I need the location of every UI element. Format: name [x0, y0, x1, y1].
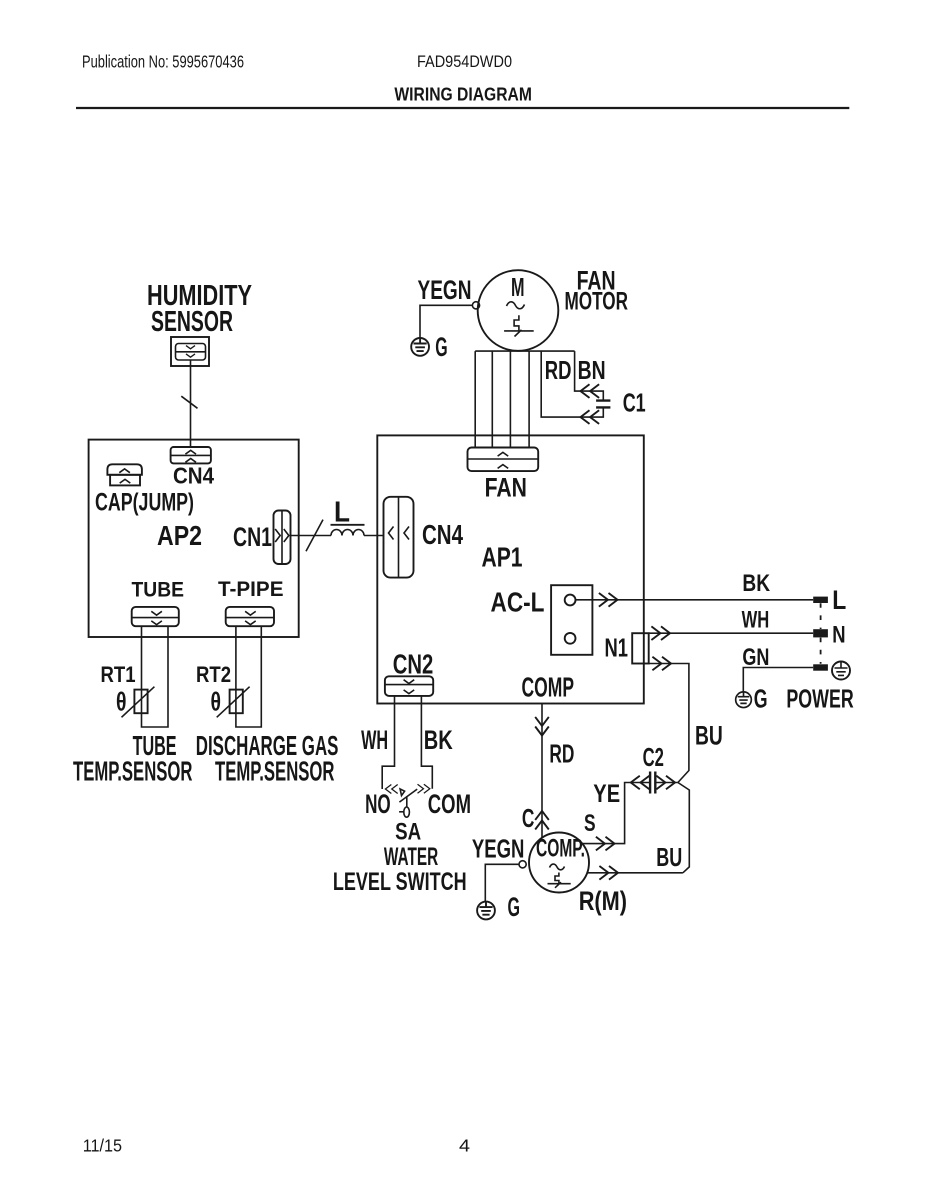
svg-text:S: S: [584, 810, 596, 837]
svg-text:BK: BK: [742, 570, 770, 597]
svg-text:LEVEL SWITCH: LEVEL SWITCH: [333, 868, 467, 896]
connector arrow up (C): [535, 811, 549, 830]
wire motor bus bar: [475, 350, 574, 352]
svg-text:RT1: RT1: [101, 662, 136, 687]
svg-text:BN: BN: [578, 355, 606, 385]
svg-text:WIRING DIAGRAM: WIRING DIAGRAM: [394, 85, 532, 105]
fan motor M1: [478, 270, 559, 351]
connector arrow down (RD): [535, 717, 549, 736]
wire humidity sensor to CN4: [190, 360, 192, 447]
svg-text:AP2: AP2: [157, 520, 202, 551]
cap jumper symbol: [107, 464, 141, 485]
svg-text:CN4: CN4: [422, 519, 463, 550]
svg-text:COMP: COMP: [522, 672, 575, 703]
wire break slash: [306, 520, 323, 552]
svg-text:AP1: AP1: [482, 542, 523, 573]
connector arrow S: [596, 837, 615, 851]
wire motor lead 1: [474, 351, 476, 447]
svg-text:C: C: [522, 803, 535, 833]
svg-text:R(M): R(M): [579, 886, 627, 916]
svg-text:RD: RD: [549, 739, 574, 769]
svg-text:COM: COM: [428, 789, 471, 819]
wire GN to terminal and ground: [743, 668, 813, 692]
connector FAN on AP1: [468, 448, 539, 472]
humidity sensor BM1: [171, 337, 209, 366]
connector CN1 on AP2: [274, 511, 291, 565]
wire C2 right to BU junction: [655, 782, 678, 784]
board AP1 box: [377, 435, 644, 703]
wire motor lead 4: [528, 351, 530, 447]
wire WH from N1 to terminal N: [649, 632, 814, 634]
compressor terminal node: [519, 861, 526, 868]
connector arrow into C2 left: [631, 776, 650, 790]
ground symbol (motor): [411, 338, 429, 356]
svg-text:YE: YE: [593, 780, 620, 808]
svg-text:COMP.: COMP.: [536, 835, 585, 863]
ground symbol (compressor): [477, 902, 495, 920]
capacitor C2: [650, 772, 655, 794]
svg-text:SENSOR: SENSOR: [151, 306, 233, 338]
svg-text:11/15: 11/15: [83, 1135, 122, 1155]
relay N1 box: [632, 633, 649, 663]
connector CN2 on AP1: [385, 676, 433, 696]
board AP2 box: [89, 440, 299, 637]
svg-text:T-PIPE: T-PIPE: [218, 578, 284, 601]
svg-text:C1: C1: [623, 388, 646, 418]
terminal N: [813, 629, 828, 637]
ground symbol (power G): [736, 692, 752, 708]
svg-text:CN4: CN4: [173, 463, 214, 489]
svg-text:N: N: [832, 622, 845, 649]
svg-text:MOTOR: MOTOR: [565, 288, 629, 316]
connector arrow BU: [652, 657, 671, 671]
svg-text:4: 4: [459, 1135, 470, 1155]
terminal GN: [813, 664, 828, 670]
wire R(M) to BU: [587, 872, 683, 874]
wire BN to C1: [575, 351, 604, 401]
wire CN1 to CN4 with choke: [291, 535, 332, 537]
wire YEGN to ground: [420, 305, 472, 338]
wire YEGN (compressor) to ground: [485, 864, 519, 901]
svg-text:θ: θ: [211, 687, 222, 717]
svg-text:RT2: RT2: [196, 662, 231, 687]
svg-text:M: M: [511, 272, 525, 302]
dashed link between power terminals: [820, 603, 822, 664]
wire break slash: [181, 396, 197, 408]
connector arrow WH: [651, 626, 670, 640]
svg-text:FAN: FAN: [485, 472, 527, 502]
svg-text:L: L: [832, 585, 846, 615]
connector arrow BK: [599, 593, 618, 607]
svg-text:G: G: [435, 332, 447, 362]
svg-text:L: L: [334, 497, 350, 529]
svg-text:TEMP.SENSOR: TEMP.SENSOR: [215, 756, 335, 787]
svg-text:BK: BK: [424, 725, 453, 755]
svg-text:AC-L: AC-L: [491, 587, 545, 618]
svg-text:YEGN: YEGN: [418, 275, 472, 305]
connector CN4 on AP1: [384, 497, 414, 578]
connector arrow R(M): [599, 866, 618, 880]
svg-text:Publication No: 5995670436: Publication No: 5995670436: [82, 51, 244, 71]
connector arrow out of C2 right: [656, 776, 675, 790]
svg-text:TUBE: TUBE: [132, 579, 185, 602]
svg-text:θ: θ: [116, 687, 127, 717]
wire BU from N1 down to compressor R: [649, 664, 690, 873]
svg-text:RD: RD: [545, 355, 572, 385]
wire RD from AP1 to compressor C: [541, 704, 543, 838]
svg-text:TEMP.SENSOR: TEMP.SENSOR: [73, 756, 193, 787]
wires SA switch from CN2: [382, 696, 432, 789]
connector arrow BN: [581, 384, 600, 398]
svg-text:BU: BU: [695, 721, 723, 751]
connector arrow RD: [581, 410, 600, 424]
svg-text:N1: N1: [605, 633, 629, 663]
thermistor RT2: [217, 687, 250, 718]
wire loop RT1: [142, 626, 169, 727]
switch SA contacts: [385, 784, 429, 817]
connector T-PIPE: [226, 607, 274, 626]
svg-text:GN: GN: [742, 644, 769, 671]
motor terminal node: [472, 302, 479, 309]
terminal L: [813, 597, 828, 603]
svg-text:G: G: [754, 684, 768, 714]
wire motor lead 3: [509, 351, 511, 447]
svg-text:NO: NO: [365, 789, 391, 819]
svg-text:FAD954DWD0: FAD954DWD0: [417, 52, 512, 71]
wire S to C2: [582, 783, 650, 844]
header rule line: [76, 107, 849, 109]
earth terminal circle (power): [832, 662, 850, 680]
svg-text:YEGN: YEGN: [472, 834, 525, 864]
wire motor lead 2: [491, 351, 493, 447]
thermistor RT1: [122, 687, 155, 718]
svg-text:G: G: [508, 892, 521, 922]
svg-text:SA: SA: [395, 819, 421, 846]
wire BK from AC-L to terminal L: [576, 599, 814, 601]
connector CN4 on AP2: [171, 447, 211, 463]
inductor L: [331, 530, 364, 536]
svg-text:WH: WH: [361, 725, 388, 755]
svg-text:WH: WH: [742, 607, 770, 634]
svg-text:POWER: POWER: [786, 684, 853, 714]
wire RD to C1: [541, 351, 603, 417]
svg-text:CN2: CN2: [393, 649, 434, 680]
capacitor C1: [596, 401, 610, 408]
terminal block AC-L: [551, 585, 592, 655]
svg-text:CAP(JUMP): CAP(JUMP): [95, 489, 194, 517]
wire loop RT2: [236, 626, 261, 727]
svg-text:BU: BU: [656, 842, 682, 872]
svg-text:CN1: CN1: [233, 522, 272, 552]
compressor M2: [529, 833, 589, 893]
svg-text:C2: C2: [643, 742, 664, 772]
connector TUBE: [132, 607, 179, 626]
svg-text:WATER: WATER: [384, 843, 438, 871]
